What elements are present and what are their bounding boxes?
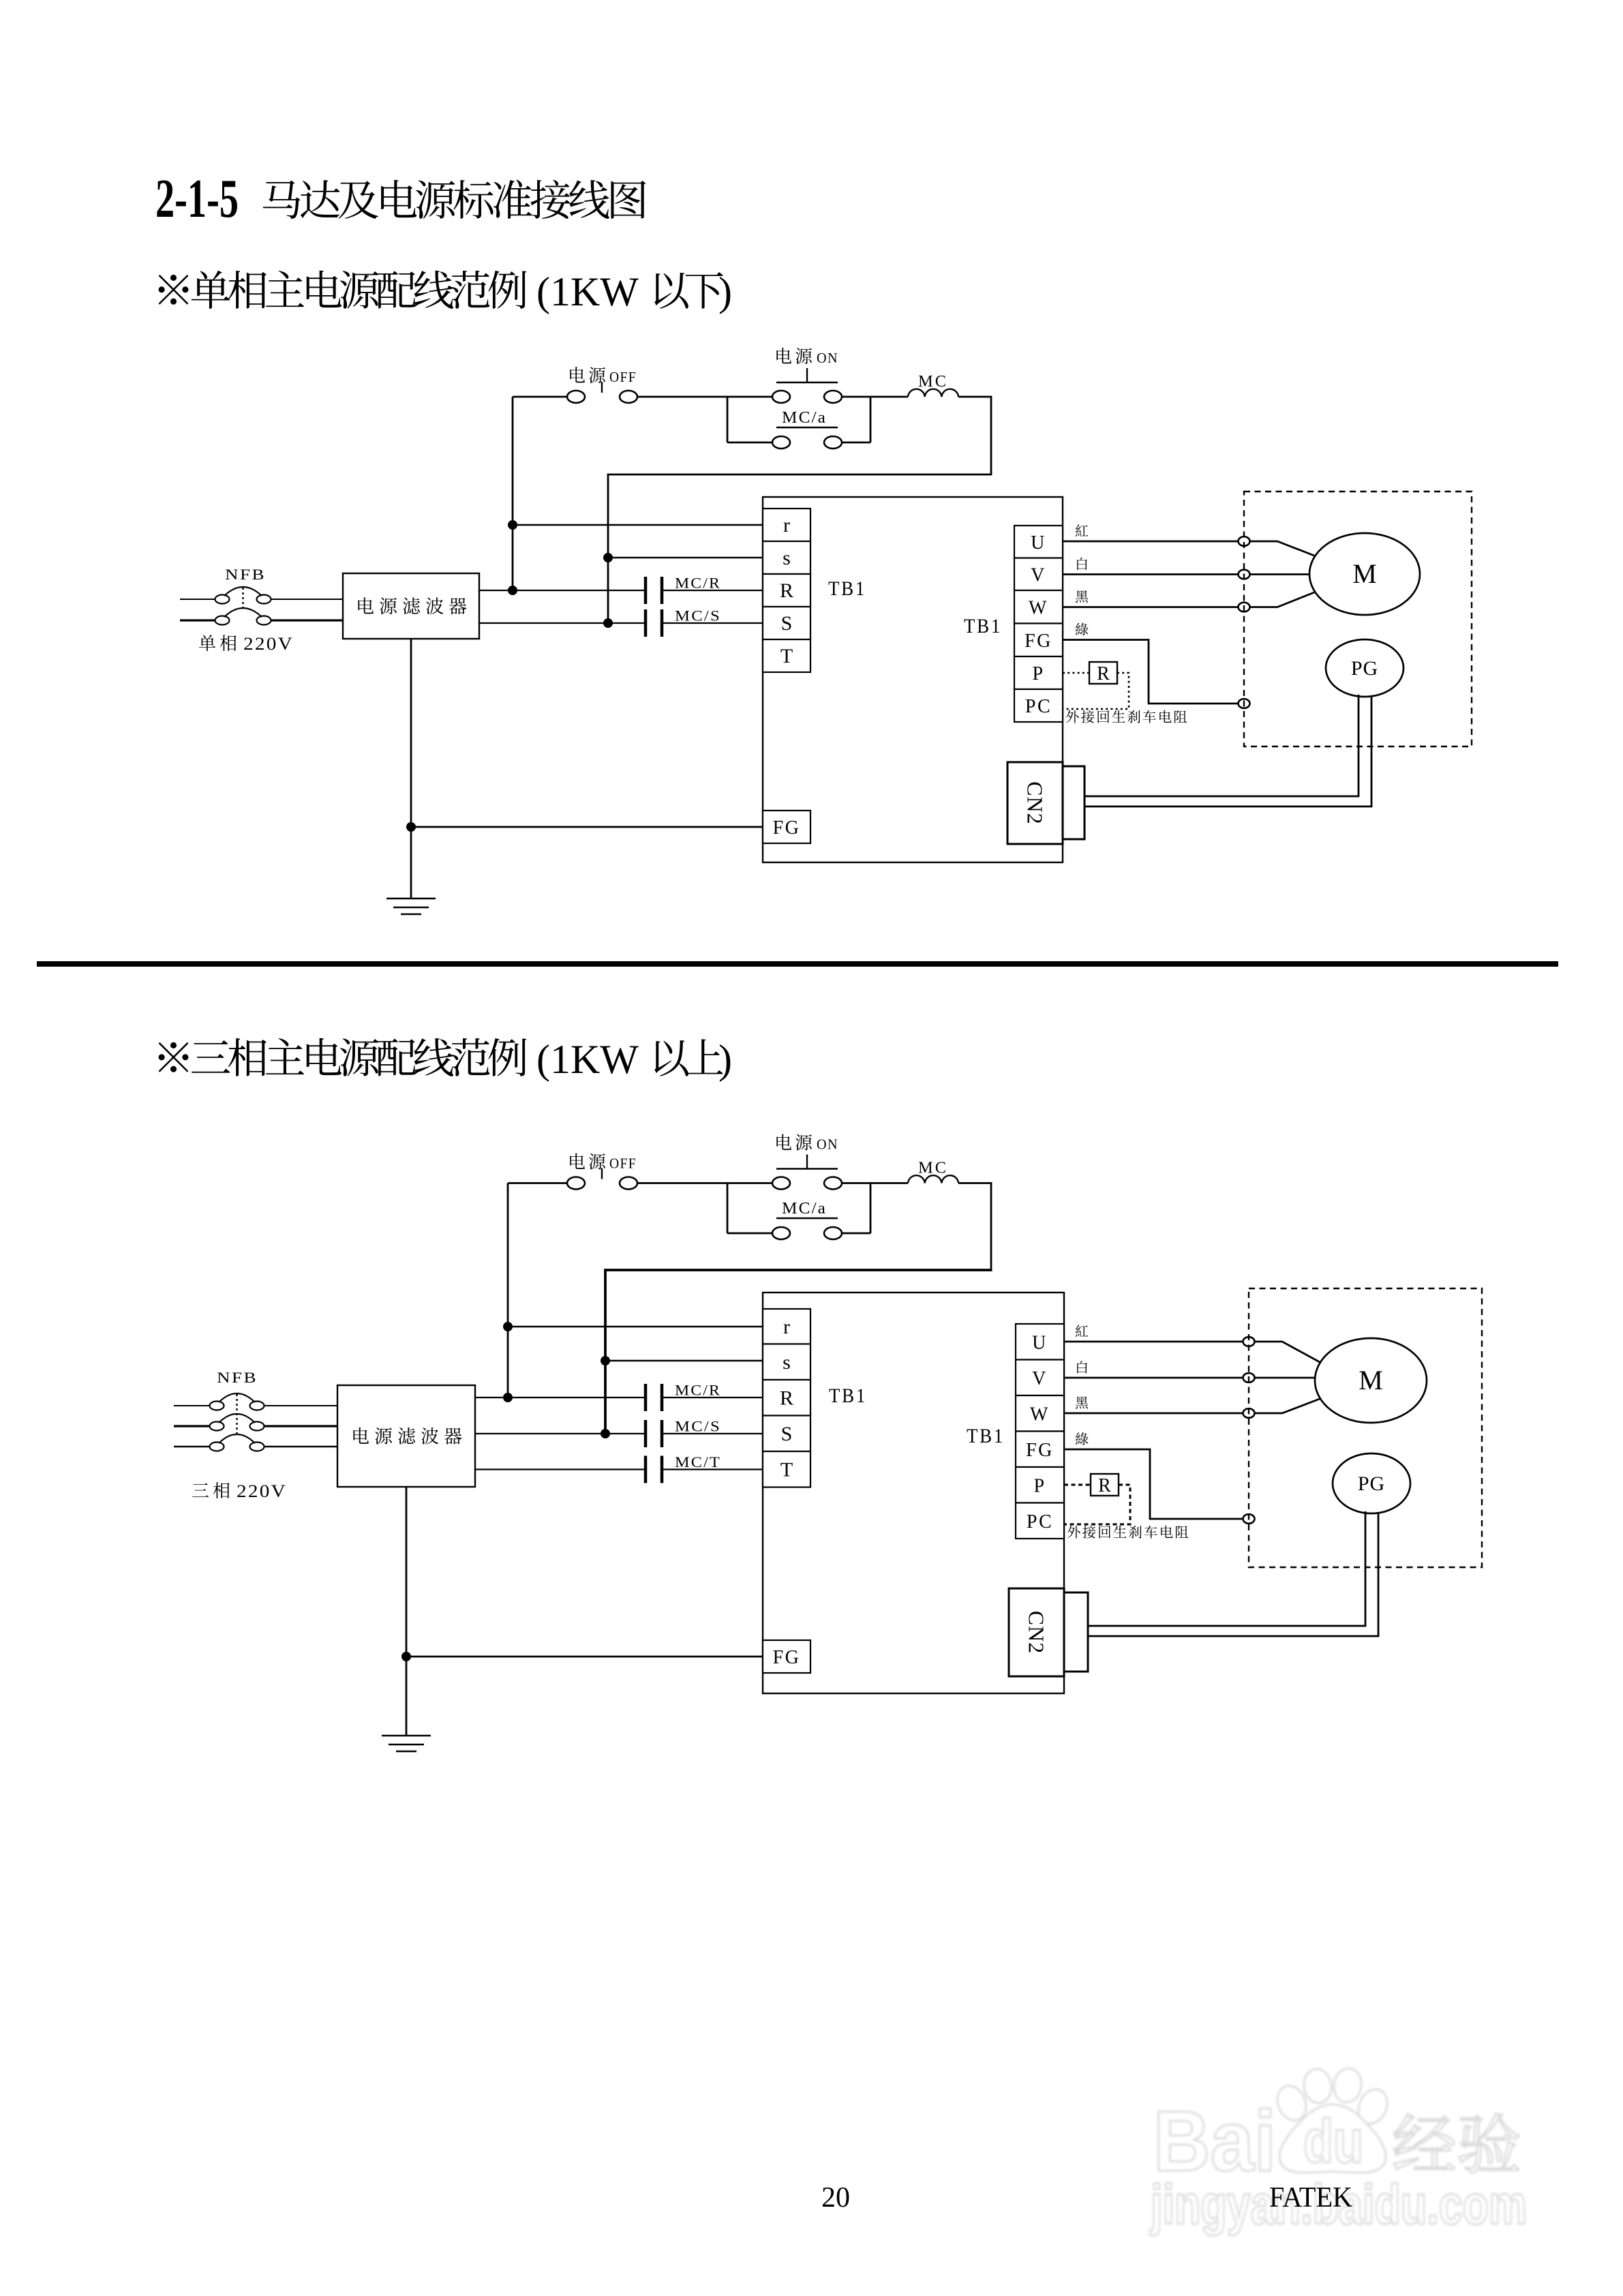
svg-text:V: V bbox=[1031, 564, 1046, 586]
wire filter to earth ground bbox=[406, 1487, 408, 1736]
svg-text:PG: PG bbox=[1351, 657, 1378, 680]
svg-text:MC/a: MC/a bbox=[782, 1200, 827, 1218]
svg-text:R: R bbox=[780, 579, 793, 602]
junction dots on R and S rows bbox=[508, 586, 613, 628]
label wire colour 紅 bbox=[1076, 1325, 1088, 1337]
contact MC/a (parallel, NO) bbox=[727, 1183, 870, 1240]
wire r + junction bbox=[503, 1322, 763, 1331]
wire: MC coil return to s-line bbox=[958, 1183, 991, 1271]
svg-text:NFB: NFB bbox=[225, 566, 266, 583]
connector CN2 bbox=[1009, 1588, 1088, 1676]
svg-text:MC/S: MC/S bbox=[675, 1418, 721, 1435]
label wire colour 黑 bbox=[1076, 590, 1088, 603]
terminal V (TB1 right) bbox=[1014, 558, 1063, 591]
terminal S (TB1 left) bbox=[763, 607, 810, 639]
label 外接回生刹车电阻 bbox=[1067, 1526, 1188, 1539]
svg-text:CN2: CN2 bbox=[1025, 1611, 1049, 1654]
svg-text:TB1: TB1 bbox=[829, 1385, 867, 1407]
svg-text:FG: FG bbox=[773, 817, 801, 839]
wire r + junction bbox=[508, 520, 763, 530]
svg-text:OFF: OFF bbox=[609, 1155, 637, 1172]
svg-text:FATEK: FATEK bbox=[1269, 2182, 1352, 2214]
earth ground symbol bbox=[386, 898, 436, 914]
svg-text:PC: PC bbox=[1027, 1511, 1053, 1532]
svg-text:FG: FG bbox=[773, 1647, 801, 1668]
wire phase R with contact MC/R bbox=[479, 575, 763, 605]
pushbutton 电源OFF (NC) bbox=[567, 367, 637, 403]
encoder cable (2 wires) bbox=[1084, 695, 1371, 806]
label wire colour 白 bbox=[1077, 1361, 1087, 1373]
wire FG to motor frame bbox=[1064, 1449, 1255, 1524]
connector CN2 bbox=[1007, 762, 1084, 844]
terminal PC (TB1 right) bbox=[1014, 689, 1063, 722]
wire: MC coil return to s-line bbox=[608, 397, 991, 623]
terminal V (TB1 right) bbox=[1016, 1360, 1064, 1396]
wire: ON to MC coil bbox=[842, 1182, 908, 1184]
title heading 2-1-5 bbox=[155, 169, 646, 229]
earth ground symbol bbox=[382, 1736, 431, 1751]
svg-text:s: s bbox=[783, 547, 791, 569]
junction dots on R and S rows bbox=[503, 1393, 610, 1438]
label wire colour 紅 bbox=[1076, 524, 1088, 537]
dashed enclosure (motor unit) bbox=[1249, 1288, 1482, 1567]
watermark 经验 bbox=[1394, 2113, 1519, 2173]
svg-text:P: P bbox=[1032, 663, 1044, 684]
terminal s (TB1 left) bbox=[763, 541, 810, 574]
svg-text:s: s bbox=[783, 1351, 791, 1374]
svg-text:2-1-5: 2-1-5 bbox=[155, 169, 239, 229]
svg-text:T: T bbox=[780, 645, 793, 667]
svg-text:R: R bbox=[780, 1387, 793, 1409]
wire phase R with contact MC/R bbox=[475, 1382, 763, 1412]
terminal R (TB1 left) bbox=[763, 574, 810, 607]
svg-text:M: M bbox=[1352, 558, 1377, 589]
servo drive box bbox=[763, 497, 1063, 862]
svg-text:CN2: CN2 bbox=[1023, 781, 1048, 824]
motor M bbox=[1309, 533, 1420, 615]
svg-text:220V: 220V bbox=[237, 1481, 287, 1501]
wire V to motor bbox=[1064, 1373, 1316, 1383]
label wire colour 黑 bbox=[1076, 1397, 1088, 1409]
svg-text:FG: FG bbox=[1026, 1440, 1054, 1461]
label wire colour 綠 bbox=[1076, 623, 1089, 635]
watermark paw bbox=[1273, 2066, 1393, 2173]
wire: rail from OFF to ON bbox=[513, 396, 567, 398]
svg-text:ON: ON bbox=[817, 1136, 838, 1153]
terminal FG (bottom) + wire to filter ground bbox=[406, 811, 810, 843]
breaker NFB bbox=[174, 1369, 337, 1451]
servo drive box bbox=[763, 1293, 1064, 1693]
wire phase S with contact MC/S bbox=[479, 607, 763, 637]
svg-text:r: r bbox=[783, 1316, 790, 1338]
motor M bbox=[1315, 1338, 1427, 1423]
wire: ON to MC coil bbox=[842, 396, 908, 398]
svg-text:(1KW: (1KW bbox=[536, 1037, 639, 1082]
svg-text:220V: 220V bbox=[243, 634, 294, 654]
svg-text:W: W bbox=[1029, 597, 1048, 618]
svg-text:MC/R: MC/R bbox=[675, 575, 721, 592]
terminal FG (TB1 right) bbox=[1014, 624, 1063, 657]
encoder PG bbox=[1333, 1453, 1410, 1513]
wire U to motor bbox=[1064, 1337, 1320, 1362]
terminal W (TB1 right) bbox=[1014, 590, 1063, 624]
wire W to motor bbox=[1064, 1399, 1320, 1418]
terminal FG (TB1 right) bbox=[1016, 1432, 1064, 1468]
subtitle three-phase bbox=[159, 1037, 732, 1082]
svg-text:V: V bbox=[1032, 1368, 1048, 1389]
svg-text:M: M bbox=[1359, 1365, 1383, 1395]
terminal T (TB1 left) bbox=[763, 639, 810, 672]
terminal S (TB1 left) bbox=[763, 1416, 810, 1452]
terminal P (TB1 right) bbox=[1014, 656, 1063, 689]
svg-text:W: W bbox=[1030, 1404, 1050, 1425]
wire FG to motor frame bbox=[1063, 640, 1250, 708]
svg-text:r: r bbox=[783, 514, 790, 537]
svg-text:du: du bbox=[1303, 2108, 1363, 2176]
svg-text:NFB: NFB bbox=[217, 1369, 258, 1386]
svg-text:S: S bbox=[781, 1423, 793, 1445]
svg-text:P: P bbox=[1033, 1475, 1046, 1496]
svg-text:R: R bbox=[1097, 663, 1110, 684]
svg-text:TB1: TB1 bbox=[967, 1425, 1005, 1447]
terminal R (TB1 left) bbox=[763, 1380, 810, 1416]
wire phase S with contact MC/S bbox=[475, 1418, 763, 1448]
label wire colour 白 bbox=[1077, 558, 1087, 570]
terminal FG (bottom) + wire to filter ground bbox=[401, 1640, 810, 1673]
svg-text:PG: PG bbox=[1358, 1472, 1385, 1495]
svg-text:MC/S: MC/S bbox=[675, 607, 721, 624]
block 电源滤波器 (power filter) bbox=[337, 1385, 475, 1487]
terminal r (TB1 left) bbox=[763, 1309, 810, 1344]
coil MC bbox=[908, 373, 958, 397]
wire U to motor bbox=[1063, 537, 1314, 556]
wire: rail from OFF to ON bbox=[508, 1182, 567, 1184]
terminal PC (TB1 right) bbox=[1016, 1503, 1064, 1539]
svg-text:U: U bbox=[1031, 532, 1046, 554]
wire: left rail down to R row bbox=[512, 397, 514, 590]
svg-text:20: 20 bbox=[821, 2182, 850, 2214]
block 电源滤波器 (power filter) bbox=[343, 573, 479, 639]
encoder cable (2 wires) bbox=[1088, 1511, 1378, 1636]
svg-text:MC: MC bbox=[918, 1160, 948, 1177]
wire V to motor bbox=[1063, 570, 1310, 579]
coil MC bbox=[908, 1160, 958, 1183]
svg-text:R: R bbox=[1098, 1475, 1111, 1496]
contact MC/a (parallel, NO) bbox=[727, 397, 870, 449]
svg-text:PC: PC bbox=[1025, 696, 1052, 717]
label wire colour 綠 bbox=[1076, 1432, 1089, 1445]
wire: left rail down to R row bbox=[507, 1183, 509, 1398]
breaker NFB bbox=[180, 566, 343, 625]
pushbutton 电源OFF (NC) bbox=[567, 1153, 637, 1190]
svg-text:MC/T: MC/T bbox=[675, 1453, 721, 1470]
svg-text:OFF: OFF bbox=[609, 369, 637, 385]
wire phase T with contact MC/T bbox=[475, 1453, 763, 1483]
terminal W (TB1 right) bbox=[1016, 1395, 1064, 1432]
terminal U (TB1 right) bbox=[1016, 1324, 1064, 1360]
label 外接回生刹车电阻 bbox=[1066, 710, 1187, 723]
wire s + junction bbox=[603, 553, 763, 562]
svg-text:TB1: TB1 bbox=[964, 615, 1002, 637]
svg-text:S: S bbox=[781, 612, 793, 635]
terminal P (TB1 right) bbox=[1016, 1467, 1064, 1503]
svg-text:): ) bbox=[718, 269, 732, 314]
wire filter to earth ground bbox=[410, 639, 412, 898]
resistor R (external regen brake) dotted bbox=[1064, 1474, 1130, 1524]
wire phase T row (unused stub) bbox=[0, 0, 1, 1]
terminal T (TB1 left) bbox=[763, 1451, 810, 1487]
svg-text:U: U bbox=[1032, 1332, 1048, 1353]
dashed enclosure (motor unit) bbox=[1244, 492, 1472, 746]
svg-text:MC/R: MC/R bbox=[675, 1382, 721, 1399]
pushbutton 电源ON (NO) bbox=[772, 348, 842, 403]
svg-text:MC: MC bbox=[918, 373, 948, 391]
terminal U (TB1 right) bbox=[1014, 526, 1063, 558]
svg-text:(1KW: (1KW bbox=[536, 269, 639, 314]
label phase voltage bbox=[192, 1481, 287, 1501]
encoder PG bbox=[1326, 639, 1404, 697]
svg-text:FG: FG bbox=[1025, 631, 1052, 652]
svg-text:ON: ON bbox=[817, 350, 838, 366]
wire W to motor bbox=[1063, 592, 1314, 611]
svg-text:TB1: TB1 bbox=[828, 577, 866, 600]
section divider rule bbox=[37, 961, 1558, 967]
resistor R (external regen brake) dotted bbox=[1063, 662, 1129, 709]
pushbutton 电源ON (NO) bbox=[772, 1134, 842, 1190]
terminal r (TB1 left) bbox=[763, 509, 810, 541]
svg-text:MC/a: MC/a bbox=[782, 409, 827, 427]
svg-text:): ) bbox=[718, 1037, 732, 1082]
label phase voltage bbox=[199, 634, 294, 654]
terminal s (TB1 left) bbox=[763, 1344, 810, 1380]
subtitle single-phase bbox=[159, 269, 732, 314]
svg-text:T: T bbox=[780, 1458, 793, 1481]
wire s + junction bbox=[601, 1356, 763, 1365]
